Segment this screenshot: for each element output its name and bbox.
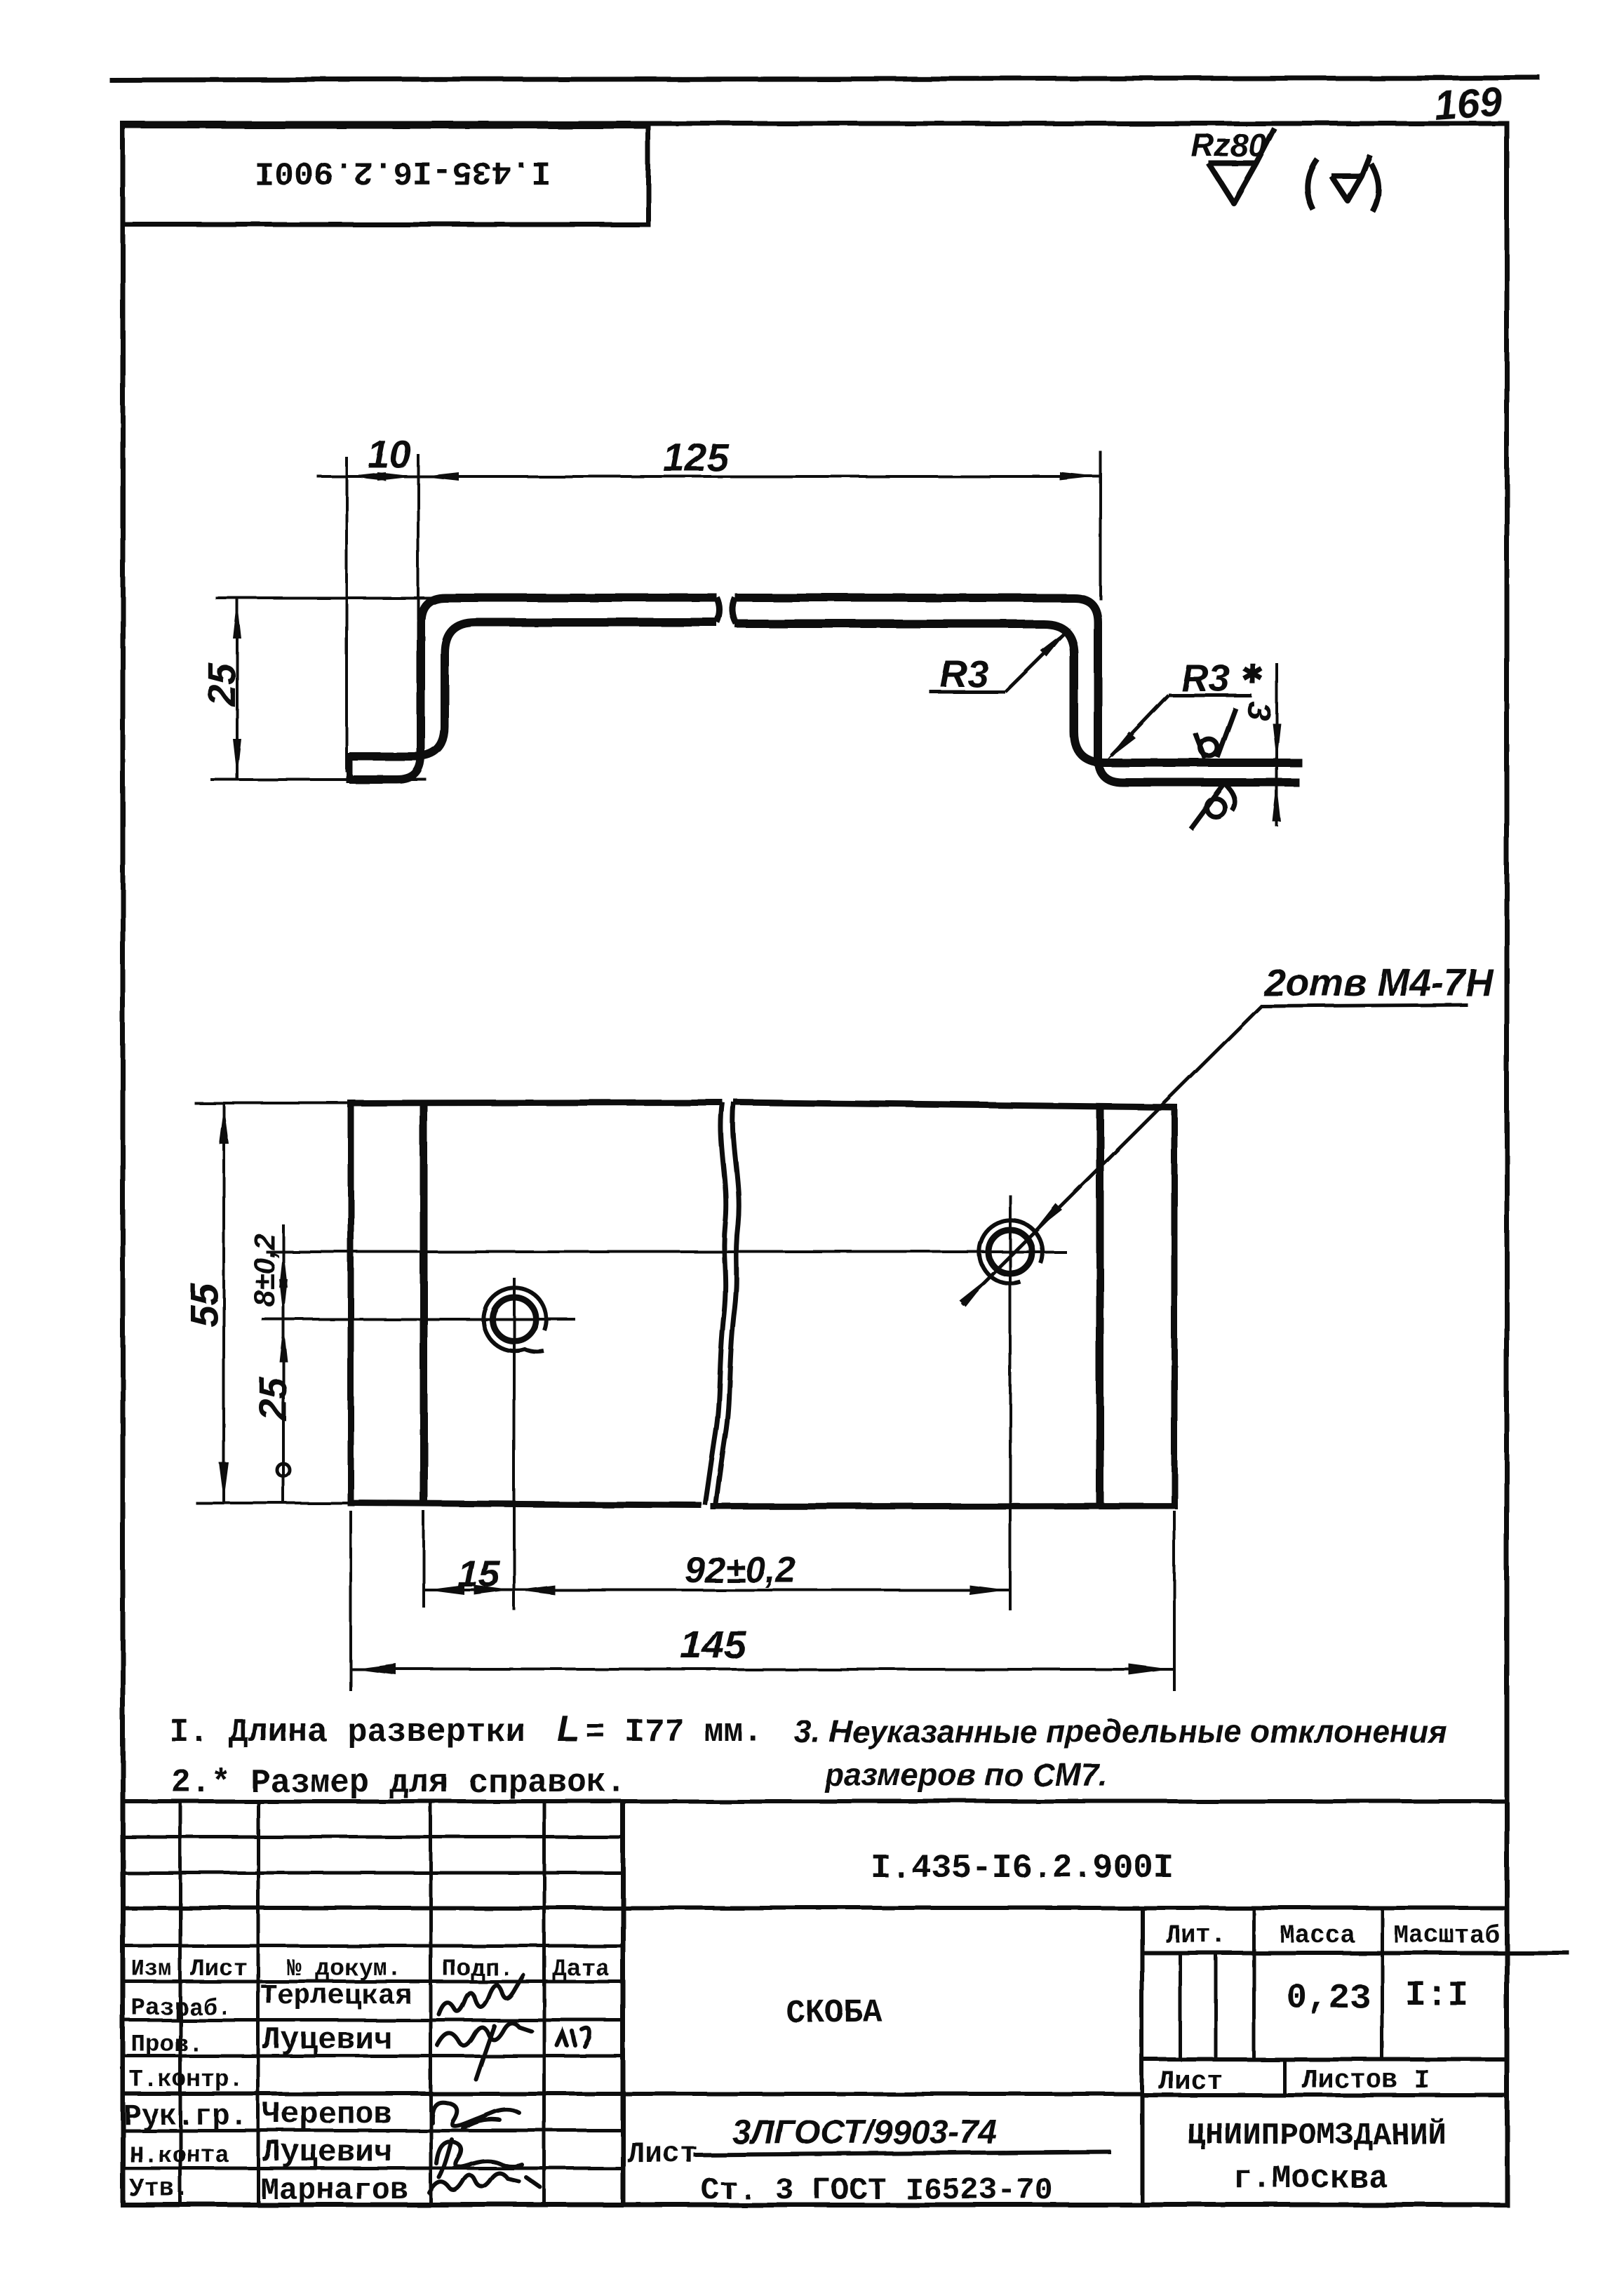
thickness dim line 3 [1275,663,1278,827]
extension line for dim 125 right [1099,451,1102,600]
svg-text:3: 3 [1239,700,1277,722]
dimension 8 plus minus 0.2 [282,1224,285,1345]
svg-text:= I77 мм.: = I77 мм. [585,1714,763,1751]
svg-text:15: 15 [457,1553,500,1595]
svg-text:Лит.: Лит. [1166,1921,1226,1950]
svg-text:Марнагов: Марнагов [260,2173,408,2208]
svg-text:R3: R3 [940,653,988,695]
svg-text:Лист: Лист [190,1956,248,1983]
svg-text:№ докум.: № докум. [287,1956,401,1983]
svg-text:125: 125 [663,435,729,479]
bend line right [1096,1108,1104,1506]
svg-text:Масса: Масса [1280,1921,1355,1950]
svg-text:2отв М4-7Н: 2отв М4-7Н [1263,961,1494,1004]
svg-text:Подп.: Подп. [442,1956,514,1983]
svg-text:I.435-I6.2.900I: I.435-I6.2.900I [254,152,551,189]
surface finish mark below flange [1207,799,1225,817]
svg-text:Луцевич: Луцевич [262,2135,392,2170]
svg-text:2.* Размер для справок.: 2.* Размер для справок. [171,1765,626,1802]
side view bottom reference line [210,778,427,781]
svg-text:55: 55 [182,1283,226,1327]
svg-text:Рук.гр.: Рук.гр. [123,2099,247,2133]
signature scribbles [439,1975,523,2015]
top-left stamp box [123,126,648,225]
svg-text:3. Неуказанные предельные откл: 3. Неуказанные предельные отклонения [794,1714,1447,1749]
extension line bend to dim 15 [422,1511,425,1608]
svg-text:25: 25 [200,662,243,707]
side view profile inner contour [349,622,717,756]
hole 1 centerlines [262,1318,575,1321]
side view profile outer contour [349,598,717,780]
extension lines for dim 55 [194,1102,351,1104]
svg-text:92±0,2: 92±0,2 [685,1550,796,1591]
svg-text:Пров.: Пров. [131,2032,203,2059]
hole 2 tapped M4 [988,1230,1032,1274]
break wavy line right piece [716,1102,739,1507]
svg-text:Утв.: Утв. [129,2175,189,2203]
svg-text:✱: ✱ [1241,660,1263,689]
bend line left [420,1103,428,1504]
hole callout leader 2otv M4-7N [962,1006,1262,1304]
svg-text:10: 10 [368,433,412,476]
dimension line 10 and 125 [317,475,1101,478]
svg-text:Черепов: Черепов [262,2097,392,2132]
svg-text:I:I: I:I [1405,1976,1468,2016]
svg-text:размеров по СМ7.: размеров по СМ7. [824,1757,1108,1793]
plan view outline [351,1102,723,1505]
drawing frame border [123,123,1507,2205]
dimension line 15 and 92 [424,1589,1011,1591]
sheet end caps [347,753,353,783]
svg-text:0,23: 0,23 [1287,1979,1371,2019]
dimension 145 [349,1511,352,1691]
title block grid [123,1800,623,1803]
parenthesized roughness symbol [1308,159,1317,210]
svg-text:Луцевич: Луцевич [262,2023,392,2058]
svg-text:Rz80: Rz80 [1191,127,1267,163]
dimension 55 [222,1103,225,1503]
svg-text:145: 145 [680,1622,746,1667]
break wavy line left piece [705,1102,726,1505]
svg-text:Лист: Лист [627,2137,698,2171]
hole 2 centerlines [266,1250,1066,1253]
svg-text:г.Москва: г.Москва [1233,2160,1388,2197]
svg-text:Терлецкая: Терлецкая [260,1981,412,2012]
svg-text:3ЛГОСТ/9903-74: 3ЛГОСТ/9903-74 [732,2114,997,2151]
hole 1 tapped M4 [492,1297,536,1341]
svg-text:R3: R3 [1181,657,1230,700]
dimension 25 side view [236,598,239,780]
svg-text:СКОБА: СКОБА [786,1995,883,2031]
top rule line [109,78,1541,80]
svg-text:Н.конта: Н.конта [129,2143,229,2170]
svg-text:L: L [557,1709,579,1749]
extension line for dim 10/125 [417,454,420,620]
extension line for dim 10 left [345,457,348,772]
svg-text:Изм: Изм [131,1956,172,1982]
svg-text:ЦНИИПРОМЗДАНИЙ: ЦНИИПРОМЗДАНИЙ [1187,2118,1447,2153]
dimension 25 plan [282,1319,285,1503]
svg-text:Листов I: Листов I [1302,2066,1430,2096]
surface finish mark above flange [1200,739,1217,756]
svg-text:8±0,2: 8±0,2 [248,1234,281,1307]
svg-text:I.435-I6.2.900I: I.435-I6.2.900I [871,1850,1174,1888]
svg-text:I. Длина развертки: I. Длина развертки [169,1714,525,1751]
svg-text:Масштаб: Масштаб [1393,1921,1499,1950]
svg-text:Т.контр.: Т.контр. [129,2067,243,2094]
svg-text:Дата: Дата [552,1956,610,1983]
side view top reference line [215,596,452,599]
svg-text:Лист: Лист [1159,2067,1223,2097]
svg-text:Разраб.: Разраб. [131,1996,231,2022]
svg-text:25: 25 [251,1377,295,1422]
svg-text:Ст. 3 ГОСТ I6523-70: Ст. 3 ГОСТ I6523-70 [701,2173,1053,2208]
roughness check symbol [1209,128,1275,203]
